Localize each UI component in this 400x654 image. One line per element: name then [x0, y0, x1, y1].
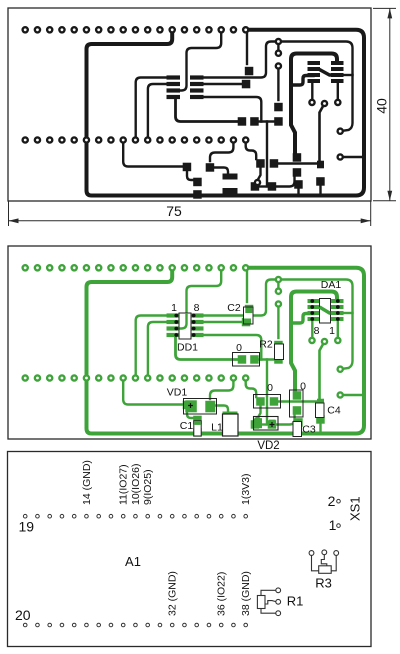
component DD1 body — [179, 313, 191, 339]
svg-text:C4: C4 — [327, 405, 341, 417]
svg-text:0: 0 — [267, 382, 273, 394]
svg-text:R2: R2 — [259, 339, 273, 351]
svg-text:8: 8 — [194, 302, 200, 314]
component jumper 0 no.1 outline — [233, 353, 260, 367]
component L1 body — [223, 414, 239, 436]
component DA1 body — [320, 299, 331, 324]
component VD1 outline — [184, 399, 217, 415]
DD1 pin dots — [174, 314, 195, 337]
svg-text:C1: C1 — [180, 420, 194, 432]
module A1 pin hole row bottom — [23, 623, 27, 627]
trimmer R3 — [309, 550, 339, 573]
svg-text:14 (GND): 14 (GND) — [81, 460, 93, 505]
svg-text:C3: C3 — [302, 424, 316, 436]
component C2 body — [244, 307, 254, 324]
component C4 body — [316, 403, 325, 418]
copper artwork green — [23, 265, 364, 437]
board outline panel 3 — [8, 452, 372, 647]
svg-text:L1: L1 — [211, 422, 223, 434]
dimension arrows — [9, 8, 393, 223]
svg-text:0: 0 — [300, 381, 306, 393]
svg-text:VD1: VD1 — [167, 387, 188, 399]
svg-text:40: 40 — [374, 98, 390, 114]
svg-text:1: 1 — [171, 302, 177, 314]
module A1 pin hole row top — [23, 514, 247, 626]
svg-text:A1: A1 — [125, 554, 141, 569]
svg-text:DD1: DD1 — [177, 342, 198, 354]
component jumper 0 no.3 outline — [290, 390, 304, 417]
svg-text:11(IO27): 11(IO27) — [118, 464, 130, 505]
component C1 body — [194, 421, 201, 436]
svg-text:DA1: DA1 — [321, 279, 342, 291]
svg-text:20: 20 — [15, 607, 31, 623]
dimension 75 line — [9, 220, 371, 222]
svg-text:75: 75 — [166, 203, 182, 219]
svg-text:1: 1 — [329, 517, 337, 533]
trimmer R1 — [257, 588, 280, 616]
svg-text:10(IO26): 10(IO26) — [130, 464, 142, 505]
svg-text:9(IO25): 9(IO25) — [142, 469, 154, 505]
component R2 body — [275, 344, 284, 360]
svg-text:19: 19 — [19, 519, 35, 535]
copper artwork black — [23, 27, 364, 199]
svg-text:0: 0 — [236, 342, 242, 354]
svg-text:VD2: VD2 — [257, 440, 279, 452]
component VD2 outline — [254, 417, 279, 431]
VD2 plus mark — [270, 422, 275, 427]
svg-text:C2: C2 — [227, 302, 241, 314]
svg-text:32 (GND): 32 (GND) — [167, 571, 179, 616]
svg-text:38 (GND): 38 (GND) — [240, 571, 252, 616]
VD1 plus mark — [188, 403, 193, 408]
svg-text:2: 2 — [328, 493, 336, 509]
DA1 pin dots — [310, 299, 339, 321]
svg-text:R1: R1 — [287, 594, 304, 609]
svg-text:36 (IO22): 36 (IO22) — [216, 572, 228, 616]
dimension 40 line — [389, 8, 391, 200]
component C3 body — [293, 422, 302, 437]
svg-text:1: 1 — [329, 325, 335, 337]
svg-text:R3: R3 — [315, 576, 332, 591]
svg-text:XS1: XS1 — [348, 496, 363, 521]
board outline panel 2 — [8, 246, 371, 439]
component jumper 0 no.2 outline — [254, 395, 281, 409]
dimension 75 extension lines — [9, 8, 397, 226]
svg-text:8: 8 — [314, 325, 320, 337]
board outline panel 1 — [8, 8, 371, 201]
svg-text:1(3V3): 1(3V3) — [240, 473, 252, 505]
dimension 40 extension lines — [373, 7, 396, 9]
